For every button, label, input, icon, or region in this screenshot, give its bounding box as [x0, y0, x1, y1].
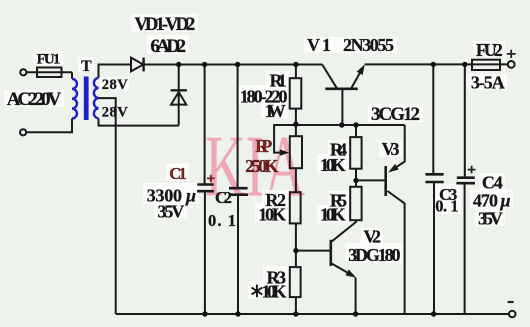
svg-text:T: T — [81, 58, 92, 75]
svg-text:1W: 1W — [265, 101, 286, 121]
svg-text:C1: C1 — [169, 164, 187, 183]
svg-text:28V: 28V — [102, 77, 129, 93]
svg-text:3CG12: 3CG12 — [371, 104, 420, 125]
svg-text:FU1: FU1 — [37, 52, 61, 68]
svg-text:3-5A: 3-5A — [471, 73, 505, 93]
svg-text:6AD2: 6AD2 — [150, 36, 186, 57]
svg-text:C4: C4 — [482, 172, 503, 192]
svg-text:35V: 35V — [478, 209, 503, 229]
svg-text:470 μ: 470 μ — [473, 191, 511, 211]
svg-text:10K: 10K — [262, 282, 287, 302]
svg-text:FU2: FU2 — [476, 40, 503, 60]
svg-text:V2: V2 — [364, 227, 382, 247]
svg-text:10K: 10K — [320, 155, 346, 175]
svg-text:0. 1: 0. 1 — [208, 211, 236, 230]
svg-text:35V: 35V — [158, 202, 185, 222]
svg-text:V3: V3 — [382, 139, 400, 159]
svg-text:250K: 250K — [245, 156, 278, 176]
svg-text:RP: RP — [255, 136, 272, 156]
svg-text:AC220V: AC220V — [7, 89, 62, 110]
svg-text:C2: C2 — [215, 188, 232, 207]
svg-text:VD1-VD2: VD1-VD2 — [135, 15, 196, 35]
svg-text:V1: V1 — [307, 35, 331, 55]
svg-text:2N3055: 2N3055 — [343, 35, 394, 55]
svg-text:10K: 10K — [320, 205, 346, 225]
svg-text:10K: 10K — [258, 205, 286, 225]
svg-text:0. 1: 0. 1 — [435, 197, 458, 216]
svg-text:28V: 28V — [102, 104, 129, 120]
svg-text:3DG180: 3DG180 — [348, 245, 400, 265]
